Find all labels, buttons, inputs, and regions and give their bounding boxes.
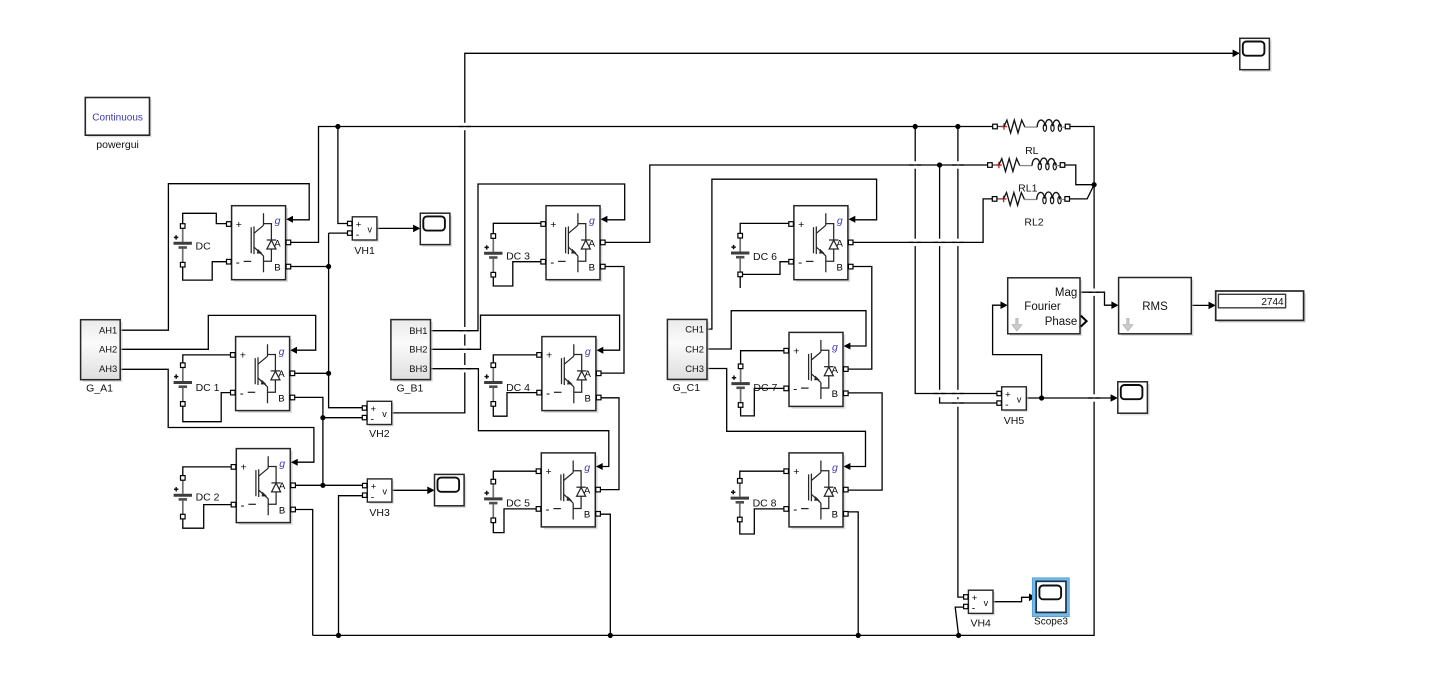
- Fourier block: [1008, 278, 1087, 336]
- wire BH1 gate loop to U4 g: [431, 184, 625, 331]
- H-bridge U6: [536, 453, 603, 529]
- wire node B1-A2 chain / VH1 - / VH2 +: [329, 233, 365, 408]
- node bus / U6 B junction: [608, 633, 613, 638]
- svg-text:Mag: Mag: [1055, 287, 1077, 299]
- scope Scope3 (selected): [1032, 578, 1069, 628]
- svg-text:G_B1: G_B1: [396, 382, 423, 394]
- RMS block: [1119, 278, 1194, 337]
- arrow into scope Scope1: [413, 225, 420, 233]
- wire battery DC7 - to U8: [741, 388, 787, 416]
- wire phase A tap to VH5 +: [915, 127, 998, 394]
- svg-text:AH2: AH2: [99, 344, 117, 355]
- scope Scope2: [435, 474, 467, 508]
- svg-text:DC 4: DC 4: [506, 382, 530, 394]
- wire RMS to display: [1191, 304, 1210, 306]
- wire U7 B output to U8 A: [848, 267, 872, 370]
- wire AH2 gate loop to U2 g: [120, 315, 316, 350]
- svg-text:BH1: BH1: [409, 325, 427, 336]
- wire VH2 output to top scope: [392, 53, 1234, 413]
- svg-text:VH5: VH5: [1004, 415, 1025, 427]
- battery DC: [174, 224, 212, 267]
- arrow into display: [1209, 302, 1216, 310]
- wire U3 A output to VH3 +: [294, 484, 365, 486]
- node VH5 out / Fourier junction: [1039, 395, 1044, 400]
- wire battery DC6 stub: [739, 277, 741, 289]
- wire BH3 gate loop to U6 g: [431, 369, 609, 467]
- wire U8 B output to U9 A: [846, 393, 882, 490]
- svg-text:RL: RL: [1025, 145, 1039, 157]
- svg-text:CH3: CH3: [685, 363, 704, 374]
- svg-text:powergui: powergui: [96, 139, 139, 151]
- wire AH1 gate loop to U1 g: [120, 184, 309, 331]
- svg-text:DC 1: DC 1: [196, 382, 220, 394]
- wire VH1 + tap: [338, 127, 350, 224]
- wire battery DC8 - to U9: [740, 509, 786, 534]
- svg-text:CH2: CH2: [685, 343, 704, 354]
- svg-text:Fourier: Fourier: [1024, 301, 1061, 313]
- svg-text:VH2: VH2: [369, 428, 390, 440]
- wire VH4 - to neutral bus: [955, 607, 965, 635]
- arrow into top scope: [1233, 50, 1240, 58]
- arrow into Scope3: [1029, 594, 1036, 602]
- svg-text:DC 5: DC 5: [506, 498, 530, 510]
- scope ScopeTop: [1240, 38, 1272, 72]
- wire battery DC3 - to U4: [493, 262, 543, 286]
- pulse generator G_C1: [667, 319, 709, 394]
- svg-text:Continuous: Continuous: [92, 112, 143, 123]
- svg-text:DC 6: DC 6: [753, 251, 777, 263]
- H-bridge U2: [231, 337, 298, 413]
- wire U1 A output / phase A line to RL: [288, 127, 995, 243]
- node bus / VH3- junction: [336, 633, 341, 638]
- node phase B / VH5- junction: [937, 162, 942, 167]
- svg-text:G_C1: G_C1: [673, 382, 701, 394]
- node phase A / VH5+ junction: [913, 124, 918, 129]
- svg-text:2744: 2744: [1261, 297, 1284, 308]
- wire U7 A output / phase C line to RL2: [851, 199, 997, 243]
- wire battery DC5 - to U6: [493, 509, 538, 533]
- wire battery DC3 + to U4: [493, 223, 543, 234]
- node RL return junction: [1092, 182, 1097, 187]
- wire CH3 gate loop to U9 g: [707, 369, 866, 467]
- voltage measurement VH5: [997, 387, 1028, 427]
- wire U4 B output to U5 A: [601, 267, 624, 374]
- svg-text:Phase: Phase: [1045, 316, 1078, 328]
- powergui block: [85, 98, 151, 152]
- svg-text:AH3: AH3: [99, 363, 117, 374]
- wire U2 B output to U3 A node: [293, 397, 323, 485]
- battery DC 1: [174, 363, 220, 406]
- battery DC 2: [174, 476, 220, 519]
- svg-text:DC 8: DC 8: [753, 498, 777, 510]
- battery DC 6: [731, 233, 777, 276]
- RL branch RL1: [988, 158, 1065, 194]
- wire VH3 - to neutral bus: [339, 496, 365, 636]
- battery DC 7: [731, 364, 777, 407]
- svg-text:RMS: RMS: [1142, 301, 1168, 313]
- arrow into Fourier: [1001, 301, 1008, 309]
- battery DC 3: [484, 234, 530, 277]
- arrow into scope Scope4: [1111, 394, 1118, 402]
- voltage measurement VH3: [363, 479, 394, 519]
- wire U4 A output / phase B line to RL1: [603, 165, 992, 242]
- wire CH1 gate loop to U7 g: [707, 179, 877, 329]
- node bus / VH4- junction: [956, 633, 961, 638]
- wire phase A tap to VH4 +: [958, 127, 966, 598]
- pulse generator G_B1: [391, 320, 433, 395]
- wire AH3 gate loop to U3 g: [120, 369, 314, 462]
- wire VH3 output to scope: [392, 489, 428, 491]
- H-bridge U5: [537, 337, 604, 413]
- wire VH4 output to Scope3: [993, 597, 1030, 601]
- wire Fourier Mag to RMS: [1080, 292, 1112, 305]
- H-bridge U7: [789, 206, 856, 282]
- wire battery DC1 + to U2: [183, 355, 233, 363]
- scope Scope1: [420, 213, 452, 247]
- svg-text:DC 2: DC 2: [196, 491, 220, 503]
- wire RL2 return diagonal: [1068, 185, 1095, 199]
- wire battery DC4 - to U5: [493, 393, 539, 417]
- wire U9 B output to neutral bus: [846, 512, 858, 636]
- wire U6 B output to neutral bus: [600, 514, 610, 635]
- wire VH1 output to scope: [377, 227, 414, 229]
- node U3 A / VH3+ junction: [320, 483, 325, 488]
- svg-text:RL2: RL2: [1024, 217, 1043, 229]
- wire VH5 output to Fourier input: [993, 305, 1042, 398]
- wire U1 B output: [288, 266, 328, 268]
- wire battery DC6 + to U7: [740, 223, 791, 233]
- wire battery DC7 + to U8: [741, 351, 787, 365]
- battery DC 8: [731, 479, 777, 522]
- H-bridge U9: [784, 453, 851, 529]
- svg-text:VH4: VH4: [970, 617, 991, 629]
- node U2 B / VH2- junction: [320, 415, 325, 420]
- svg-text:AH1: AH1: [99, 325, 117, 336]
- svg-text:DC 7: DC 7: [753, 382, 777, 394]
- wire VH5 output to scope: [1026, 397, 1111, 399]
- wire battery DC8 + to U9: [740, 471, 786, 479]
- svg-text:BH3: BH3: [409, 363, 427, 374]
- wire battery DC + to U1: [183, 213, 229, 224]
- wire battery DC - to U1: [183, 262, 229, 280]
- node U2 A / VH2+ junction: [326, 371, 331, 376]
- arrow into RMS: [1111, 301, 1118, 309]
- wire U3 B output to neutral bus: [294, 510, 313, 636]
- wire crossing gaps: [459, 123, 1100, 407]
- RL branch RL2: [992, 192, 1069, 229]
- node U1 B / VH1- junction: [326, 264, 331, 269]
- H-bridge U1: [227, 206, 294, 282]
- wire battery DC6 - to U7: [740, 262, 791, 275]
- pulse generator G_A1: [81, 320, 123, 395]
- voltage measurement VH1: [348, 217, 379, 257]
- svg-text:VH1: VH1: [354, 245, 375, 257]
- H-bridge U4: [541, 206, 608, 282]
- svg-text:DC 3: DC 3: [506, 250, 530, 262]
- H-bridge U3: [231, 449, 298, 525]
- battery DC 5: [484, 479, 530, 522]
- wire CH2 gate loop to U8 g: [707, 311, 866, 349]
- svg-text:Scope3: Scope3: [1034, 617, 1068, 628]
- wire U2 A output: [293, 372, 329, 374]
- wire battery DC4 + to U5: [493, 355, 539, 363]
- node bus / U9 B junction: [856, 633, 861, 638]
- scope Scope4: [1118, 382, 1150, 416]
- wire RL1 return: [1062, 165, 1094, 185]
- wire battery DC5 + to U6: [493, 471, 538, 479]
- H-bridge U8: [784, 332, 851, 408]
- wire battery DC2 + to U3: [183, 467, 234, 476]
- wire U5 B output to U6 A: [600, 398, 619, 490]
- wire VH2 - tap: [323, 417, 365, 419]
- voltage measurement VH2: [362, 401, 393, 440]
- display 2744: [1216, 291, 1306, 323]
- svg-text:VH3: VH3: [369, 507, 390, 519]
- svg-text:BH2: BH2: [409, 344, 427, 355]
- node phase A / VH1+ junction: [335, 124, 340, 129]
- wire RL return / neutral bus: [313, 127, 1094, 636]
- wire BH2 gate loop to U5 g: [431, 315, 620, 350]
- wire battery DC2 - to U3: [183, 505, 234, 529]
- battery DC 4: [484, 363, 530, 406]
- wire phase B tap to VH5 -: [940, 165, 999, 403]
- svg-text:G_A1: G_A1: [86, 383, 113, 395]
- RL branch RL: [993, 120, 1070, 157]
- wire battery DC1 - to U2: [183, 393, 233, 422]
- arrow into scope Scope2: [427, 487, 434, 495]
- voltage measurement VH4: [964, 590, 995, 629]
- node phase A / VH4+ junction: [955, 124, 960, 129]
- svg-text:DC: DC: [196, 240, 212, 252]
- svg-text:CH1: CH1: [685, 324, 704, 335]
